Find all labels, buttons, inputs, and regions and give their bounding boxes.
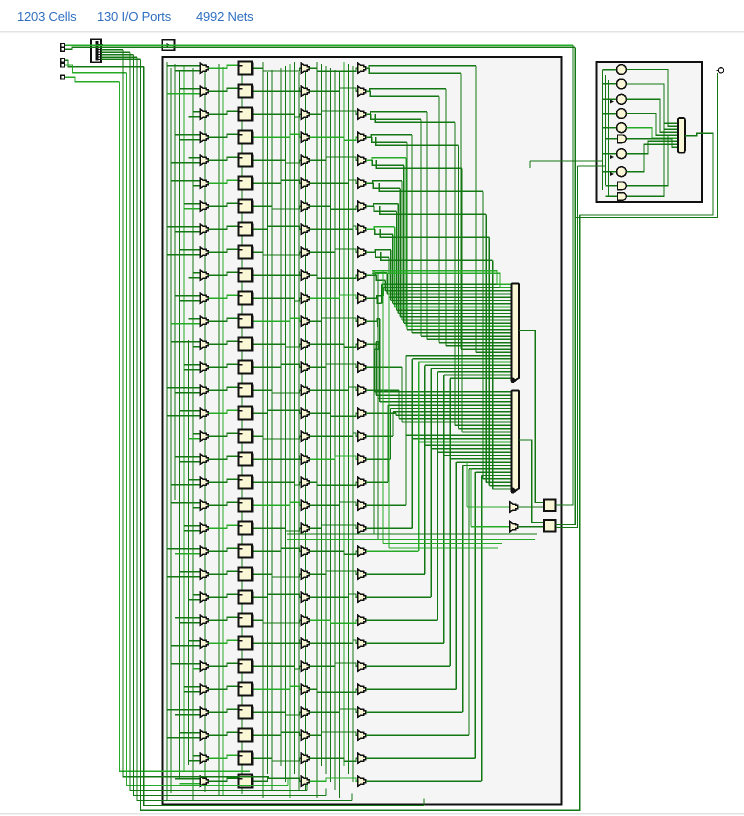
module sub_block boundary — [597, 62, 702, 202]
buffer BUF4_4 — [358, 155, 366, 166]
wire r29_b3_b4 — [309, 732, 357, 735]
wire fanG_r2_p10_v — [454, 122, 456, 425]
wire r10_lut_ff — [208, 295, 237, 298]
wire ch2_4 — [285, 66, 287, 782]
wire busd — [287, 539, 535, 541]
wire fan_line12_v — [397, 204, 399, 314]
buffer BUF3_21 — [301, 546, 309, 557]
wire fanG_r4_p12_v — [461, 168, 463, 432]
buffer BUF4_23 — [358, 592, 366, 603]
wire fanF_r5_p26 — [379, 183, 483, 191]
buffer LUT_22_A — [200, 569, 208, 580]
wire r16_in_b — [189, 438, 201, 440]
wire spl_o7 — [101, 58, 141, 60]
wire bus_f — [372, 273, 511, 287]
wire fan_line24_v — [375, 342, 377, 395]
wire submux_out — [685, 133, 713, 136]
wire r5_in_a — [171, 180, 200, 182]
wire r27_b3_b4 — [309, 689, 357, 692]
wire r5_in_b — [193, 185, 200, 187]
wire r26_b3_b4 — [309, 663, 357, 666]
wire r2_lut_ff — [208, 111, 237, 114]
wire ch0_0 — [166, 62, 168, 800]
wire r20_lut_ff — [208, 525, 237, 528]
wire mod_in1 — [530, 160, 603, 162]
flipflop FDRE_25 — [239, 636, 254, 650]
flipflop FDRE_18 — [239, 475, 254, 489]
buffer BUF4_22 — [358, 569, 366, 580]
wire r6_b3_b4 — [309, 206, 357, 209]
wire stair_r20_m1tap — [412, 358, 510, 360]
buffer BUF3_5 — [301, 178, 309, 189]
wire fan_line0_v — [475, 66, 477, 352]
buffer BUF3_7 — [301, 224, 309, 235]
wire r11_b3_b4 — [309, 318, 357, 321]
buffer BUF3_31 — [301, 776, 309, 787]
wire fan_line8_v — [405, 158, 407, 327]
wire r30_in_b — [189, 760, 201, 762]
wire r13_lut_ff — [208, 364, 237, 367]
wire net_clk_top — [65, 44, 573, 46]
wire r18_ff_b3 — [254, 482, 302, 485]
wire busd2 — [389, 547, 498, 549]
wire p5_w — [65, 77, 120, 82]
wire r18_lut_ff — [208, 479, 237, 482]
wire fanF_r7_p28_v — [488, 237, 490, 485]
flipflop FDRE_13 — [239, 360, 254, 374]
buffer BUF3_19 — [301, 500, 309, 511]
wire r27_in_b — [184, 691, 200, 693]
wire stair_r19_v — [405, 356, 407, 506]
buffer BUF3_15 — [301, 408, 309, 419]
wire ch2_1 — [267, 72, 269, 774]
flipflop FDRE_27 — [239, 682, 254, 696]
wire r15_to_m2_t — [396, 414, 511, 416]
wire fan_line15_t — [393, 303, 511, 305]
inverter RTL_INV5 — [617, 149, 627, 159]
buffer BUF4_16 — [358, 431, 366, 442]
buffer LUT_20_A — [200, 523, 208, 534]
wire r24_ff_b3 — [254, 620, 302, 623]
wire ch2_5 — [289, 64, 291, 798]
wire r24_b3_b4 — [309, 620, 357, 623]
buffer BUF3_3 — [301, 132, 309, 143]
wire fan_line22_v — [379, 319, 381, 402]
wire ch0_1 — [170, 68, 172, 793]
wire stair_r29_v — [468, 469, 470, 735]
wire md2_out — [627, 123, 678, 196]
buffer BUF3_17 — [301, 454, 309, 465]
wire fan_line12 — [366, 204, 398, 206]
flipflop FDRE_17 — [239, 452, 254, 466]
wire stair_r22_m2tap — [425, 444, 511, 446]
wire r10_in_a — [175, 295, 200, 297]
wire r16_in_a — [193, 433, 200, 435]
wire r20_b3_b4 — [309, 525, 357, 528]
wire r6_in_a — [184, 203, 200, 205]
clock tick — [610, 100, 614, 104]
wire bus_e — [372, 271, 511, 285]
wire stair_r27_m2tap — [456, 461, 510, 463]
wire vx378 — [377, 273, 379, 539]
wire ch3_2 — [325, 66, 327, 774]
buffer BUF4_31 — [358, 776, 366, 787]
buffer BUF4_24 — [358, 615, 366, 626]
buffer BUF3_6 — [301, 201, 309, 212]
wire mod_in2 — [577, 165, 605, 167]
wire fan_line7 — [372, 137, 407, 142]
wire r30_b3_b4 — [309, 758, 357, 761]
wire r11_in_a — [189, 318, 201, 320]
wire r26_in_b — [193, 668, 200, 670]
flipflop FDRE_9 — [239, 268, 254, 282]
wire stair_r22_m1tap — [425, 364, 511, 366]
wire fan_line2 — [366, 89, 446, 91]
bufg BUFG_inst — [162, 40, 174, 51]
wire r12_in_b — [193, 346, 200, 348]
buffer LUT_28_A — [200, 707, 208, 718]
wire r25_in_a — [189, 640, 201, 642]
wire r28_lut_ff — [208, 709, 237, 712]
buffer LUT_16_A — [200, 431, 208, 442]
net col1 chain vertical — [204, 64, 206, 792]
buffer OBUF_2 — [510, 521, 518, 532]
buffer LUT_31_A — [200, 776, 208, 787]
wire fanG_r4_p12_t — [462, 431, 511, 433]
wire fan_line5_v — [420, 119, 422, 336]
buffer LUT_8_A — [200, 247, 208, 258]
wire fanF_r8_p29 — [381, 252, 493, 260]
buffer BUF3_0 — [301, 63, 309, 74]
wire r21_in_a — [167, 548, 200, 550]
wire fan_line23 — [377, 321, 379, 326]
wire obuf2_in — [471, 526, 510, 528]
wire stair_r25_m1tap — [444, 374, 511, 376]
wire fan_line18_t — [387, 293, 510, 295]
wire r22_ff_b3 — [254, 574, 302, 577]
wire fan_line7_t — [407, 329, 511, 331]
wire mc5_in — [603, 153, 617, 155]
wire r30_in_a — [193, 755, 200, 757]
wire r17_to_m2 — [366, 458, 391, 460]
wire fan_line5_t — [421, 335, 511, 337]
wire r4_lut_ff — [208, 157, 237, 160]
wire ch1_1 — [222, 67, 224, 796]
flipflop FDRE_8 — [239, 245, 254, 259]
buffer LUT_25_A — [200, 638, 208, 649]
wire fan_line16_t — [391, 300, 511, 302]
wire r0_in_a — [167, 65, 200, 67]
buffer BUF4_27 — [358, 684, 366, 695]
wire fan_line20 — [366, 296, 384, 298]
buffer LUT_12_A — [200, 339, 208, 350]
wire bundle_v_123 — [123, 50, 269, 777]
wire mc6_out — [627, 144, 678, 171]
flipflop FDRE_31 — [239, 774, 254, 788]
wire r16_b3_b4 — [309, 433, 357, 436]
wire stair_r21_m2tap — [419, 441, 511, 443]
wire mod_v2 — [605, 75, 607, 185]
wire stair_r24_h — [366, 619, 438, 621]
buffer BUF3_23 — [301, 592, 309, 603]
flipflop FDRE_15 — [239, 406, 254, 420]
wire ch0_6 — [192, 68, 194, 800]
net col2 clock vertical — [241, 62, 243, 794]
flipflop OUT_FF2 — [544, 520, 556, 532]
buffer BUF4_12 — [358, 339, 366, 350]
wire r28_in_b — [175, 714, 200, 716]
wire r14_to_m2 — [366, 389, 399, 391]
buffer LUT_11_A — [200, 316, 208, 327]
buffer BUF3_26 — [301, 661, 309, 672]
wire r22_lut_ff — [208, 571, 237, 574]
flipflop FDRE_19 — [239, 498, 254, 512]
wire mc2_out — [627, 99, 678, 132]
wire r24_in_a — [175, 617, 200, 619]
wire bundle_rise_130 — [306, 784, 308, 791]
wire r7_in_b — [175, 231, 200, 233]
flipflop FDRE_16 — [239, 429, 254, 443]
wire stair_r30_m2tap — [475, 471, 510, 473]
wire r2_ff_b3 — [254, 114, 302, 117]
buffer LUT_18_A — [200, 477, 208, 488]
wire r18_to_m2_v — [387, 405, 389, 482]
wire r23_b3_b4 — [309, 594, 357, 597]
buffer BUF3_30 — [301, 753, 309, 764]
wire r5_lut_ff — [208, 180, 237, 183]
wire r18_b3_b4 — [309, 482, 357, 485]
wire r19_b3_b4 — [309, 502, 357, 505]
buffer BUF4_9 — [358, 270, 366, 281]
buffer LUT_21_A — [200, 546, 208, 557]
gate RTL_AND0 — [618, 135, 627, 143]
wire r12_b3_b4 — [309, 344, 357, 347]
wire stair_r22_h — [366, 573, 425, 575]
wire ch2_3 — [280, 68, 282, 766]
wire fan_line21_v — [381, 284, 383, 303]
buffer BUF4_8 — [358, 247, 366, 258]
wire stair_r29_m2tap — [469, 468, 511, 470]
wire r31_in_b — [180, 783, 201, 785]
wire r1_lut_ff — [208, 88, 237, 91]
wire r13_b3_b4 — [309, 364, 357, 367]
wire fan_line22_t — [380, 401, 511, 403]
wire fan_line2_v — [445, 89, 447, 346]
flipflop FDRE_14 — [239, 383, 254, 397]
wire mc4_in — [603, 127, 617, 129]
wire bundle_v_140.5 — [141, 59, 580, 810]
buffer BUF3_1 — [301, 86, 309, 97]
wire r30_ff_b3 — [254, 758, 302, 761]
wire ch1_0 — [218, 64, 220, 796]
wire fan_line11 — [373, 183, 400, 188]
wire fan_line22 — [366, 319, 380, 321]
wire fanF_r5_p26_t — [483, 478, 511, 480]
wire r17_to_m2_t — [391, 408, 511, 410]
flipflop FDRE_7 — [239, 222, 254, 236]
buffer BUF3_4 — [301, 155, 309, 166]
wire r15_in_b — [167, 415, 200, 417]
buffer LUT_1_A — [200, 86, 208, 97]
wire r9_in_b — [189, 277, 201, 279]
wire ch3_4 — [334, 70, 336, 790]
wire r14_b3_b4 — [309, 387, 357, 390]
wire vx374 — [373, 271, 375, 534]
wire stair_r25_v — [443, 375, 445, 643]
wire fan_line21_t — [382, 283, 511, 285]
wire r16_to_m2_t — [393, 411, 511, 413]
wire r14_ff_b3 — [254, 390, 302, 393]
wire spl_o6 — [101, 56, 137, 58]
wire frame_right — [141, 215, 580, 810]
wire r25_ff_b3 — [254, 640, 302, 643]
gate RTL_AND2 — [618, 193, 627, 201]
flipflop FDRE_28 — [239, 705, 254, 719]
port q_out — [716, 68, 723, 73]
wire md2_in — [606, 195, 618, 197]
wire fan_line19 — [376, 275, 385, 280]
wire obuf2_v — [470, 468, 472, 527]
wire mc0_in — [603, 69, 617, 71]
buffer LUT_10_A — [200, 293, 208, 304]
wire r17_ff_b3 — [254, 456, 302, 459]
wire r23_ff_b3 — [254, 594, 302, 597]
wire fanF_r5_p26_v — [482, 191, 484, 479]
wire r23_lut_ff — [208, 594, 237, 597]
wire stair_r28_v — [462, 466, 464, 713]
wire r13_in_b — [184, 369, 200, 371]
buffer BUF4_13 — [358, 362, 366, 373]
wire offv1 — [556, 45, 573, 505]
wire stair_r21_v — [418, 362, 420, 551]
wire stair_r19_m1tap — [406, 355, 511, 357]
wire ch3_6 — [343, 62, 345, 766]
wire r12_lut_ff — [208, 341, 237, 344]
wire fan_line18_v — [386, 273, 388, 294]
wire r23_in_a — [193, 594, 200, 596]
wire r12_in_a — [171, 341, 200, 343]
buffer BUF4_20 — [358, 523, 366, 534]
wire r29_ff_b3 — [254, 732, 302, 735]
wire fanG_r2_p10 — [375, 114, 455, 122]
wire stair_r23_h — [366, 596, 431, 598]
wire r15_to_m2_v — [395, 413, 397, 415]
wire fan_line8 — [366, 158, 406, 160]
buffer BUF3_22 — [301, 569, 309, 580]
wire r22_in_b — [167, 576, 200, 578]
wire r20_ff_b3 — [254, 528, 302, 531]
wire r11_in_b — [171, 323, 200, 325]
wire r12_ff_b3 — [254, 344, 302, 347]
wire r17_to_m2_v — [390, 409, 392, 460]
flipflop FDRE_4 — [239, 153, 254, 167]
buffer BUF3_27 — [301, 684, 309, 695]
wire r18_in_a — [189, 479, 201, 481]
inverter RTL_INV1 — [617, 79, 627, 89]
flipflop FDRE_22 — [239, 567, 254, 581]
wire r10_ff_b3 — [254, 298, 302, 301]
inverter RTL_INV3 — [617, 109, 627, 119]
wire fanG_r4_p12 — [376, 160, 462, 168]
buffer BUF3_25 — [301, 638, 309, 649]
wire ch2_6 — [294, 62, 296, 774]
wire fanF_r7_p28_t — [489, 485, 510, 487]
wire fanG_r3_p11 — [376, 137, 459, 145]
buffer BUF4_18 — [358, 477, 366, 488]
wire r31_in_a — [175, 778, 200, 780]
buffer BUF4_0 — [358, 63, 366, 74]
wire r7_lut_ff — [208, 226, 237, 229]
wire r15_lut_ff — [208, 410, 237, 413]
wire fan_line10_v — [401, 181, 403, 320]
wire r24_lut_ff — [208, 617, 237, 620]
wire stair_r24_v — [437, 372, 439, 620]
buffer OBUF_1 — [510, 502, 518, 513]
buffer BUF4_2 — [358, 109, 366, 120]
wire fan_line10_t — [402, 319, 511, 321]
wire p3_w — [65, 60, 144, 66]
wire r11_ff_b3 — [254, 318, 302, 321]
svg-text:4992 Nets: 4992 Nets — [196, 9, 254, 24]
wire fan_line2_t — [446, 345, 511, 347]
wire fan_line13_t — [396, 309, 510, 311]
wire stair_r25_m2tap — [444, 454, 511, 456]
wire obuf1_v — [466, 462, 468, 507]
wire stair_r23_m1tap — [431, 368, 510, 370]
wire mc4_out — [627, 128, 678, 139]
buffer LUT_23_A — [200, 592, 208, 603]
mux RTL_MUX_SUB — [678, 118, 685, 153]
wire spl_o5 — [101, 54, 134, 56]
wire fanG_r2_p10_t — [455, 424, 511, 426]
buffer LUT_30_A — [200, 753, 208, 764]
flipflop FDRE_21 — [239, 544, 254, 558]
wire stair_r23_v — [430, 369, 432, 598]
wire fan_line24_t — [376, 394, 510, 396]
wire fan_line14 — [366, 227, 395, 229]
wire r31_b3_b4 — [309, 778, 357, 781]
buffer LUT_13_A — [200, 362, 208, 373]
wire r13_ff_b3 — [254, 364, 302, 367]
buffer BUF3_13 — [301, 362, 309, 373]
wire busc — [287, 533, 537, 535]
wire fan_line24 — [366, 342, 378, 344]
flipflop FDRE_0 — [239, 61, 254, 75]
wire r17_lut_ff — [208, 456, 237, 459]
wire stair_r20_v — [411, 359, 413, 528]
wire fan_line23_v — [377, 326, 379, 398]
wire r14_to_m2_v — [398, 390, 400, 418]
wire fan_line6_v — [411, 135, 413, 333]
wire stair_r22_v — [424, 365, 426, 574]
mux RTL_MUX1 — [512, 284, 520, 383]
wire fan_line4_t — [427, 338, 511, 340]
buffer LUT_3_A — [200, 132, 208, 143]
wire modout_h217 — [575, 73, 718, 218]
buffer LUT_0_A — [200, 63, 208, 74]
wire bundle_rise_133.5 — [325, 789, 327, 796]
wire r7_b3_b4 — [309, 226, 357, 229]
wire vx389 — [388, 273, 390, 548]
wire fanF_r7_p28 — [380, 229, 489, 237]
wire fanF_r6_p27_v — [485, 214, 487, 482]
wire stair_r27_h — [366, 688, 456, 690]
wire r14_lut_ff — [208, 387, 237, 390]
buffer BUF3_2 — [301, 109, 309, 120]
buffer BUF4_19 — [358, 500, 366, 511]
wire bundle_rise_137 — [351, 794, 353, 801]
wire r17_in_a — [175, 456, 200, 458]
